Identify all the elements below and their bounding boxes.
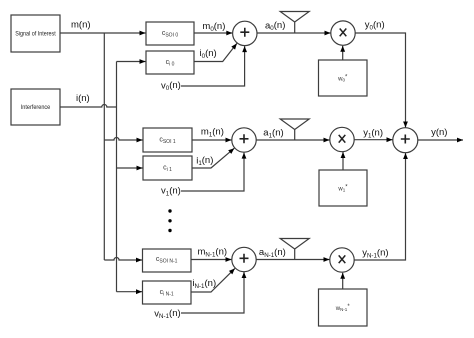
- wire i bus to c_i0: [117, 61, 146, 63]
- svg-text:v0(n): v0(n): [161, 80, 181, 92]
- svg-text:y(n): y(n): [431, 127, 447, 138]
- wire i bus vertical: [116, 62, 118, 292]
- wire y_1(n) to final adder: [354, 139, 392, 141]
- antenna row1: [280, 119, 309, 140]
- svg-text:v1(n): v1(n): [161, 185, 181, 197]
- svg-text:Interference: Interference: [21, 104, 51, 111]
- wire i_N-1(n): [191, 268, 235, 292]
- wire v_N-1(n): [181, 272, 244, 313]
- antenna row0: [280, 12, 309, 34]
- svg-text:m0(n): m0(n): [202, 21, 225, 33]
- filter c_i N-1: [143, 281, 192, 304]
- wire m bus vertical: [103, 33, 105, 260]
- multiplier row0: [331, 21, 355, 45]
- wire y(n) output: [418, 139, 463, 141]
- weight w_N-1*: [319, 289, 368, 326]
- vertical ellipsis dots: [168, 209, 171, 232]
- wire i_1(n): [192, 148, 234, 168]
- wire a_N-1(n) adder to multiplier: [256, 259, 329, 261]
- svg-text:y1(n): y1(n): [363, 128, 383, 140]
- wire i(n) from Interference to i bus (hop over m bus): [60, 105, 117, 108]
- svg-text:a1(n): a1(n): [263, 127, 283, 139]
- filter c_SOI N-1: [143, 249, 192, 272]
- svg-text:m(n): m(n): [71, 20, 91, 31]
- svg-text:m1(n): m1(n): [201, 126, 224, 138]
- wire w_1 to multiplier: [342, 152, 344, 170]
- adder row1: [232, 128, 256, 152]
- weight w_1*: [319, 170, 367, 206]
- wire m bus branch to c_SOI1 (hop over i bus): [104, 138, 142, 141]
- adder row2: [232, 247, 256, 271]
- source block Interference: [11, 89, 60, 125]
- svg-text:a0(n): a0(n): [265, 20, 285, 32]
- wire w_0 to multiplier: [342, 46, 344, 60]
- multiplier row2: [330, 248, 354, 272]
- wire v_1(n): [181, 153, 244, 191]
- antenna row2: [280, 239, 309, 260]
- filter c_i 1: [143, 156, 192, 180]
- final adder: [393, 128, 418, 153]
- wire m_1(n): [192, 139, 232, 141]
- wire a_1(n) adder to multiplier: [256, 139, 329, 141]
- weight w_0*: [319, 60, 368, 96]
- svg-text:i(n): i(n): [76, 93, 90, 104]
- wire y_0(n) to final adder: [355, 33, 405, 128]
- multiplier row1: [330, 127, 354, 151]
- filter c_i 0: [146, 51, 194, 74]
- wire i bus branch to c_i1: [117, 167, 143, 169]
- source block Signal of Interest: [11, 15, 60, 52]
- wire v_0(n): [181, 46, 245, 86]
- wire w_N-1 to multiplier: [342, 273, 344, 289]
- wire i bus to c_i N-1: [117, 291, 143, 293]
- wire m bus branch to c_SOI N-1 (hop over i bus): [104, 258, 142, 261]
- wire a_0(n) adder to multiplier: [257, 32, 331, 34]
- adder row0: [233, 21, 257, 45]
- wire m_0(n): [194, 32, 232, 34]
- wire i_0(n): [194, 43, 237, 61]
- filter c_SOI 0: [146, 22, 194, 45]
- wire y_N-1(n) to final adder: [354, 153, 405, 260]
- wire m_N-1(n): [191, 259, 232, 261]
- svg-text:Signal of Interest: Signal of Interest: [15, 31, 56, 38]
- filter c_SOI 1: [143, 128, 192, 152]
- svg-text:y0(n): y0(n): [365, 19, 385, 31]
- wire m(n) from Signal of Interest to c_SOI0: [60, 32, 146, 34]
